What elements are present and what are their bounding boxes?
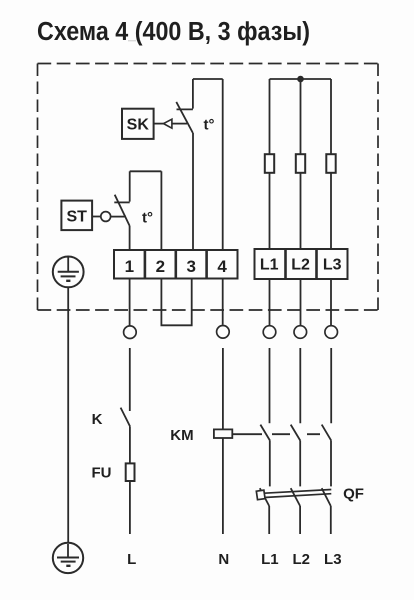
svg-text:Схема 4 (400 В, 3 фазы): Схема 4 (400 В, 3 фазы) xyxy=(37,18,310,46)
svg-text:FU: FU xyxy=(92,464,112,481)
svg-text:QF: QF xyxy=(343,486,364,503)
svg-text:K: K xyxy=(92,411,103,428)
svg-text:L2: L2 xyxy=(292,551,310,568)
svg-text:ST: ST xyxy=(66,209,87,226)
svg-text:N: N xyxy=(218,551,229,568)
svg-text:L2: L2 xyxy=(291,257,310,274)
svg-text:t°: t° xyxy=(142,209,153,226)
svg-text:L1: L1 xyxy=(260,257,279,274)
svg-text:L1: L1 xyxy=(261,551,279,568)
svg-text:1: 1 xyxy=(125,257,134,276)
svg-text:L3: L3 xyxy=(324,551,342,568)
svg-text:L: L xyxy=(127,551,136,568)
svg-text:KM: KM xyxy=(170,427,193,444)
svg-text:4: 4 xyxy=(217,257,227,276)
svg-text:SK: SK xyxy=(127,117,150,134)
svg-text:t°: t° xyxy=(204,116,215,133)
svg-text:L3: L3 xyxy=(323,257,342,274)
svg-text:2: 2 xyxy=(156,257,165,276)
svg-text:3: 3 xyxy=(186,257,195,276)
